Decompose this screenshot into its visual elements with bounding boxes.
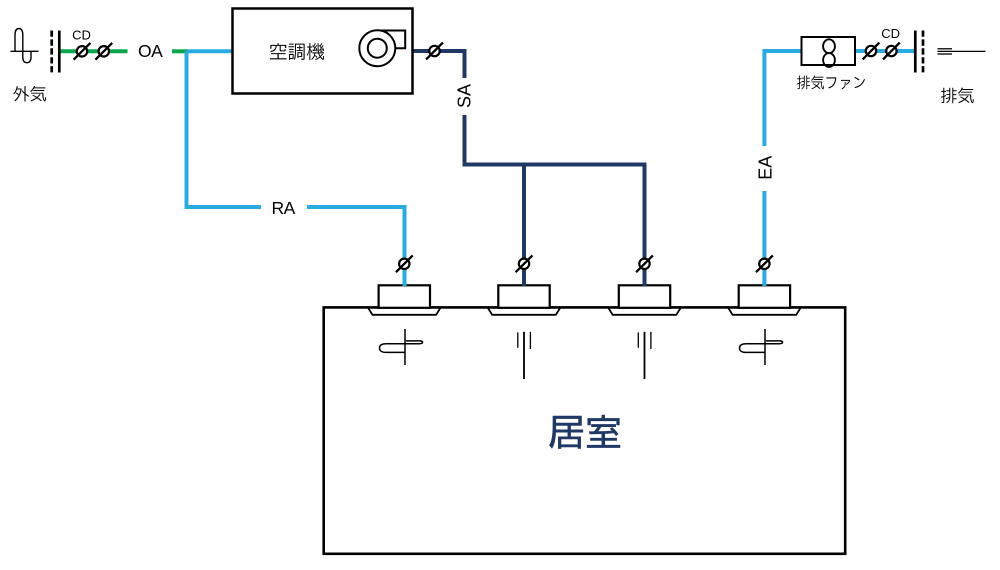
svg-text:SA: SA [454,84,474,108]
svg-text:CD: CD [72,27,91,42]
svg-text:EA: EA [756,156,776,180]
svg-text:RA: RA [272,198,296,218]
svg-text:OA: OA [138,41,163,61]
svg-text:CD: CD [881,26,900,41]
